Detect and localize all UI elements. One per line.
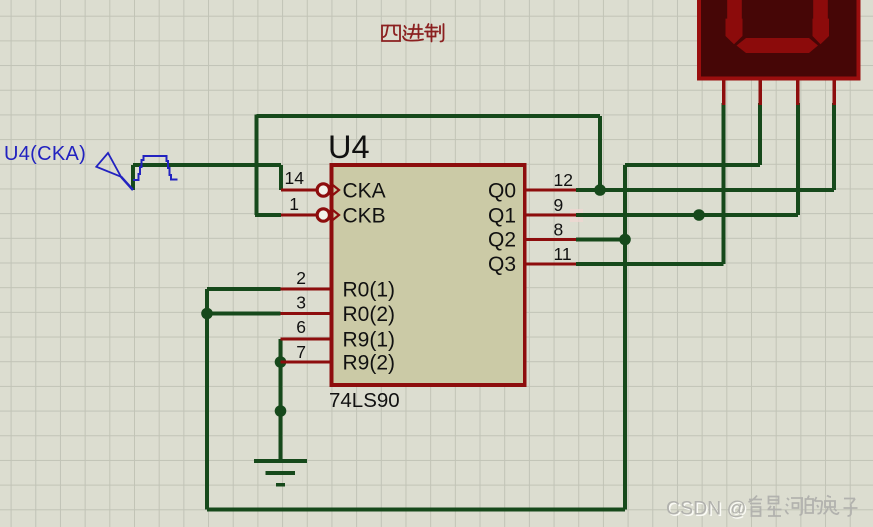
wire to display pin B horizontal (625, 163, 760, 167)
watermark char 星 (768, 497, 782, 517)
junction on Q1 (693, 209, 705, 221)
7-segment display body (699, 0, 859, 79)
watermark char 看 (749, 496, 763, 517)
svg-text:74LS90: 74LS90 (329, 389, 400, 412)
svg-text:U4: U4 (328, 129, 370, 165)
wire Q1 horizontal (576, 213, 798, 217)
wire right long vertical (623, 165, 627, 510)
svg-text:11: 11 (554, 244, 572, 264)
svg-text:9: 9 (554, 195, 564, 215)
svg-text:2: 2 (296, 268, 306, 288)
display segment E (726, 0, 743, 44)
wire display pin A vertical (722, 103, 726, 264)
wire R0(2) horizontal (207, 312, 281, 316)
display segment D (737, 38, 819, 53)
junction on R0(2) (201, 308, 213, 320)
probe arrow (96, 153, 121, 177)
svg-text:Q2: Q2 (488, 229, 516, 252)
junction on Q0 (594, 184, 606, 196)
svg-text:CSDN @: CSDN @ (666, 498, 746, 520)
pin stub Q3 (525, 263, 577, 266)
pin stub CKA (281, 189, 317, 192)
wire left long vertical (205, 289, 209, 510)
probe arrow tail (121, 177, 133, 190)
wire top loop CKB-Q0 (257, 114, 601, 118)
pin CKA clock bubble (317, 184, 329, 196)
svg-text:R0(1): R0(1) (343, 279, 396, 302)
wire CKA horizontal from probe (133, 163, 281, 167)
junction on R9(2) (275, 356, 287, 368)
title text 四进制 (382, 24, 444, 42)
wire top loop drop to Q0 (598, 116, 602, 190)
svg-text:R0(2): R0(2) (343, 303, 396, 326)
wire bottom horizontal (207, 508, 625, 512)
pin stub Q2 (525, 238, 577, 241)
watermark char 河 (786, 498, 804, 515)
pin stub R9(2) (281, 361, 333, 364)
svg-text:Q3: Q3 (488, 253, 516, 276)
wire CKB horizontal (255, 213, 281, 217)
svg-text:7: 7 (296, 342, 306, 362)
svg-text:12: 12 (554, 170, 573, 190)
wire R9 link vertical (279, 339, 283, 460)
pin CKB clock arrow (332, 209, 340, 221)
pin CKA clock arrow (332, 184, 340, 196)
highlight artifact on Q1 stub end (570, 209, 583, 222)
wire display pin B vertical (758, 103, 762, 165)
svg-text:CKA: CKA (343, 180, 386, 203)
pin stub Q0 (525, 189, 577, 192)
display pin C stub (796, 81, 800, 106)
wire probe stub (131, 165, 135, 190)
svg-text:1: 1 (289, 194, 299, 214)
junction mid vertical (275, 405, 287, 417)
display segment C (813, 0, 830, 44)
wire CKA drop (279, 165, 283, 190)
junction on Q2 (619, 234, 631, 246)
pin stub R9(1) (281, 338, 333, 341)
wire display pin D vertical (832, 103, 836, 190)
svg-text:R9(1): R9(1) (343, 329, 396, 352)
wire Q3 horizontal (576, 262, 724, 266)
pin stub R0(2) (281, 312, 333, 315)
svg-text:R9(2): R9(2) (343, 352, 396, 375)
svg-text:3: 3 (296, 293, 306, 313)
watermark char 子 (844, 499, 858, 517)
svg-text:U4(CKA): U4(CKA) (4, 143, 86, 165)
display pin A stub (722, 81, 726, 106)
watermark char 的 (806, 496, 823, 514)
pin stub R0(1) (281, 288, 333, 291)
svg-text:6: 6 (296, 317, 306, 337)
svg-text:8: 8 (554, 220, 564, 240)
display pin D stub (832, 81, 836, 106)
ground (254, 459, 307, 486)
svg-text:Q1: Q1 (488, 205, 516, 228)
wire R0(1) horizontal (207, 287, 281, 291)
display pin B stub (758, 81, 762, 106)
pin stub Q1 (525, 214, 577, 217)
IC U4 body (332, 165, 525, 385)
watermark char 兔 (824, 496, 839, 515)
wire Q0 horizontal (576, 188, 834, 192)
clock waveform symbol (133, 156, 178, 180)
svg-text:14: 14 (285, 168, 305, 188)
svg-text:CKB: CKB (343, 205, 386, 228)
svg-text:Q0: Q0 (488, 180, 516, 203)
wire display pin C vertical (796, 103, 800, 215)
pin stub CKB (281, 214, 317, 217)
wire Q2 horizontal (576, 238, 625, 242)
wire left vertical to CKB (255, 115, 259, 216)
pin CKB clock bubble (317, 209, 329, 221)
